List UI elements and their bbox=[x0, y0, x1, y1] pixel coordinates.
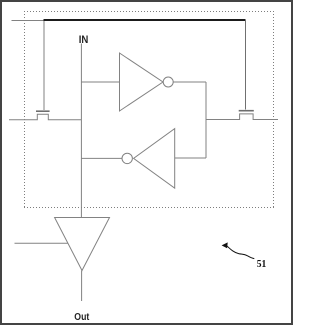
wire top rail left stub bbox=[12, 20, 45, 22]
transistor Q1 channel and wires bbox=[9, 114, 81, 119]
op-amp U2 inverter triangle bbox=[134, 129, 175, 189]
U2 output bubble bbox=[122, 153, 132, 163]
op-amp U1 inverter triangle bbox=[120, 53, 164, 111]
wire U2 input bbox=[175, 157, 206, 159]
svg-text:IN: IN bbox=[79, 34, 89, 46]
pointer arrow to 51 bbox=[227, 246, 255, 259]
svg-text:51: 51 bbox=[257, 259, 267, 270]
wire output bbox=[81, 271, 83, 302]
wire gate feed right bbox=[245, 20, 247, 110]
wire top rail (bold) bbox=[44, 19, 246, 21]
wire IN vertical bbox=[80, 44, 82, 218]
transistor Q1 gate bar bbox=[36, 110, 50, 112]
transistor Q2 gate bar bbox=[239, 110, 254, 112]
svg-text:Out: Out bbox=[74, 311, 89, 323]
wire inverter U1 input bbox=[81, 81, 119, 83]
wire buffer enable input bbox=[15, 242, 69, 244]
U1 output bubble bbox=[163, 77, 173, 87]
op-amp U3 output buffer triangle bbox=[55, 218, 110, 271]
wire U1 output bbox=[173, 81, 206, 83]
dashed enclosure box bbox=[24, 11, 274, 208]
wire U2 output bbox=[81, 157, 122, 159]
wire gate feed left bbox=[43, 21, 45, 110]
wire right vertical bbox=[205, 82, 207, 158]
transistor Q2 channel and wires bbox=[206, 114, 278, 120]
